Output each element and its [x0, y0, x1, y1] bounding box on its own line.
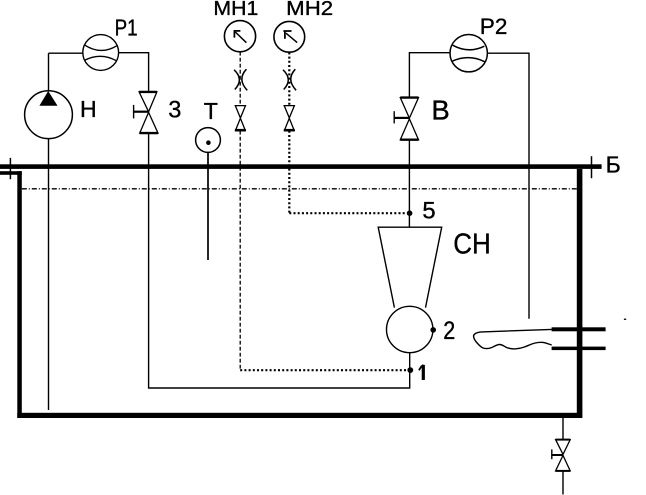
valve 3 [133, 92, 158, 133]
drain wire lower [562, 471, 564, 495]
svg-text:B: B [431, 95, 449, 126]
tank right wall [577, 169, 583, 418]
funnel CH [378, 227, 442, 307]
rotameter P1 [83, 35, 119, 71]
speck [624, 319, 626, 320]
heater squiggle [474, 329, 552, 349]
svg-text:MH2: MH2 [286, 0, 333, 20]
wire valve B riser to P2 [409, 53, 529, 319]
heater lead upper [552, 327, 606, 331]
svg-text:P2: P2 [480, 14, 508, 39]
svg-text:P1: P1 [115, 15, 138, 41]
thermometer T [196, 128, 221, 153]
wire valve 3 down and across to node 1 riser [149, 133, 410, 388]
lid right tick [591, 156, 593, 178]
mixer circle [387, 306, 433, 352]
wire valve B down to node 5 and funnel [408, 140, 410, 228]
tank bottom [17, 413, 580, 418]
svg-text:T: T [204, 98, 218, 124]
tank lid [0, 164, 602, 169]
pump H [25, 91, 73, 139]
MH1 valve [235, 106, 246, 131]
drain wire upper [562, 418, 564, 440]
water level (dash-dot) [22, 188, 577, 190]
svg-text:2: 2 [443, 317, 455, 345]
wire P1 to valve 3 [118, 53, 148, 92]
svg-text:MH1: MH1 [213, 0, 258, 20]
MH1 damper [234, 70, 239, 90]
svg-text:Б: Б [606, 152, 621, 178]
svg-text:5: 5 [422, 197, 435, 224]
MH2 damper [283, 70, 288, 90]
valve B [394, 98, 419, 140]
label 1 [419, 365, 423, 380]
manometer MH2 [274, 21, 305, 52]
heater lead lower [552, 347, 606, 351]
manometer MH1 [224, 21, 255, 52]
drain valve [551, 440, 570, 471]
node 5 [407, 210, 413, 216]
MH1 line to node 1 (bold dotted) [240, 369, 407, 371]
MH2 line to node 5 (bold dotted) [289, 212, 406, 214]
MH1 impulse line (fine dashed) [239, 52, 241, 369]
MH2 impulse line (bold dotted) [288, 52, 290, 213]
svg-text:3: 3 [168, 98, 181, 124]
node 2 [430, 327, 436, 333]
MH2 valve [284, 106, 295, 131]
svg-text:CH: CH [453, 229, 491, 261]
rotameter P2 [450, 35, 487, 72]
svg-text:H: H [80, 96, 97, 122]
wire pump to P1 riser [49, 53, 84, 410]
tank left wall [0, 171, 22, 175]
node 1 [407, 367, 413, 373]
lid left tick [9, 158, 11, 179]
